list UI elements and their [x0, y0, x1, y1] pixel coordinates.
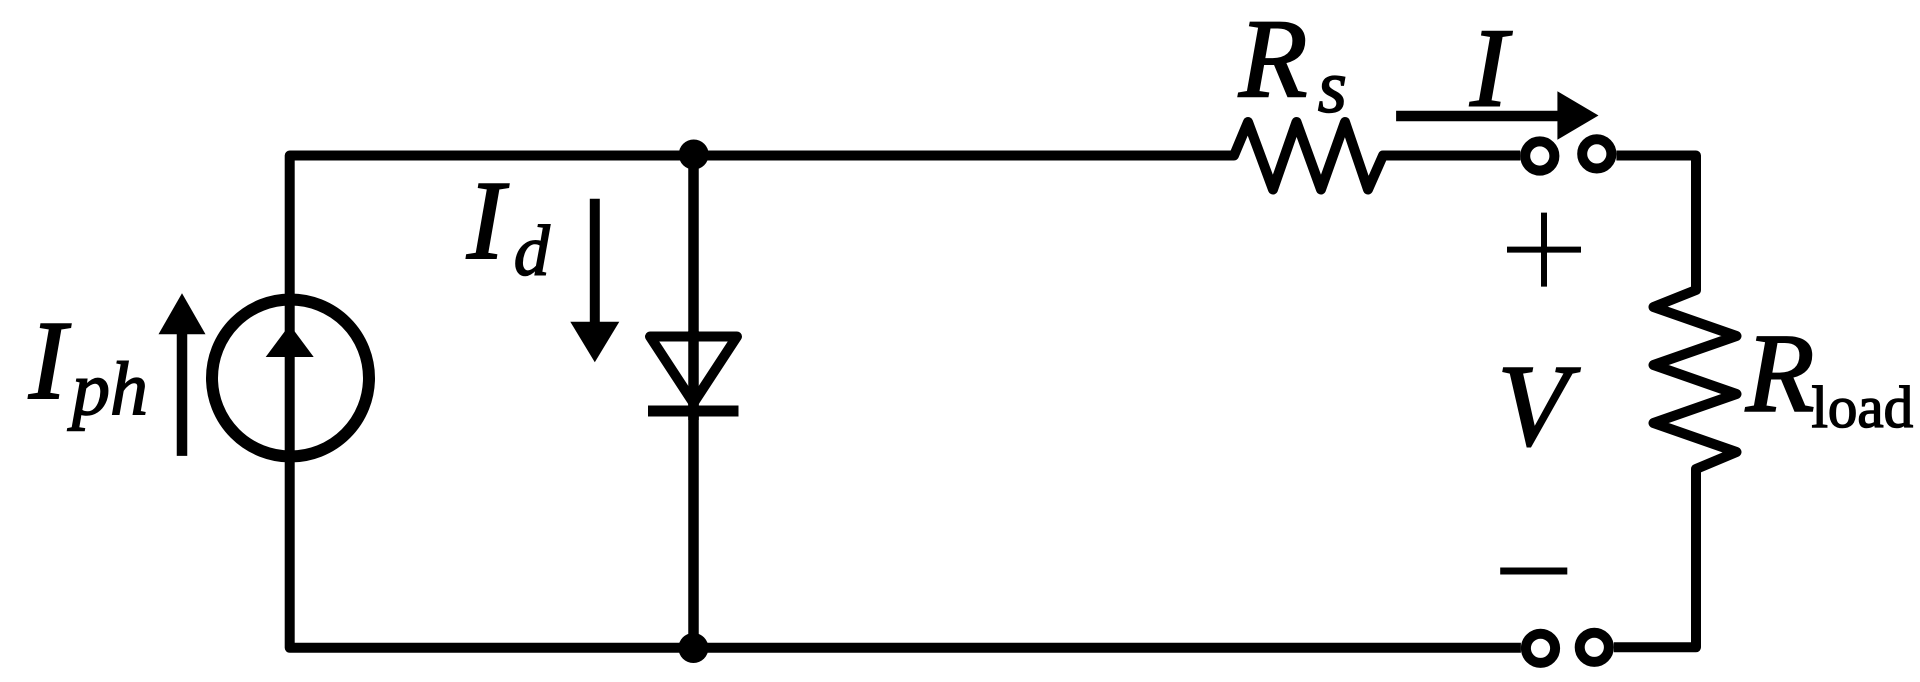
node junction dot bottom [678, 633, 708, 663]
terminal bottom-right [1580, 633, 1609, 662]
svg-text:I: I [28, 299, 71, 423]
arrow Iph head [159, 293, 206, 334]
terminal bottom-left [1526, 634, 1555, 663]
svg-text:I: I [1469, 7, 1512, 131]
diode D1 triangle [650, 337, 737, 404]
svg-text:s: s [1318, 46, 1347, 129]
arrow Id shaft [590, 199, 600, 325]
label plus [1507, 213, 1581, 287]
resistor Rs zigzag [1226, 122, 1520, 190]
svg-text:load: load [1812, 374, 1914, 440]
current source internal arrowhead [266, 325, 314, 357]
svg-text:V: V [1497, 342, 1580, 471]
wire diode branch [688, 156, 699, 648]
arrow Iph shaft [177, 330, 188, 456]
svg-text:ph: ph [67, 347, 148, 431]
label minus [1500, 568, 1567, 575]
arrow I shaft [1396, 111, 1560, 122]
node junction dot top [679, 140, 709, 170]
svg-text:d: d [514, 211, 551, 291]
wire right side with resistor Rload zigzag [1614, 156, 1737, 648]
arrow I head [1557, 91, 1598, 139]
diode D1 cathode bar [648, 406, 739, 417]
svg-text:I: I [466, 159, 509, 283]
wire top + left + bottom loop [290, 156, 1521, 648]
arrow Id head [570, 322, 619, 363]
terminal top-left [1525, 141, 1554, 170]
wire overlay through diode [688, 331, 699, 420]
svg-text:R: R [1745, 312, 1814, 436]
terminal top-right [1582, 139, 1611, 168]
current source U1 circle [212, 300, 369, 457]
svg-text:R: R [1238, 0, 1307, 122]
wire through current source [285, 296, 295, 460]
